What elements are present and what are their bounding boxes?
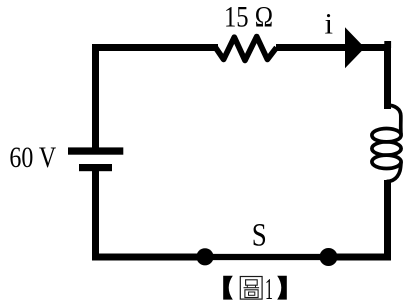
- wire: top segment from resistor to top-right corner: [276, 48, 388, 110]
- caption: right lenticular bracket 】: [277, 276, 287, 300]
- caption: character 圖 top box tick left: [246, 285, 248, 287]
- switch S: right contact dot: [320, 248, 338, 266]
- caption: character 圖 top box tick right: [255, 285, 257, 287]
- battery B1: bottom plate (negative, short): [79, 164, 112, 171]
- inductor L1: loop 2: [372, 142, 401, 155]
- current arrow (direction of i): [345, 27, 365, 68]
- caption: character 圖 bottom box: [245, 290, 258, 298]
- svg-text:1: 1: [265, 271, 273, 305]
- caption: character 圖 top inner box: [246, 280, 258, 285]
- top-right corner nub: [384, 41, 391, 48]
- inductor L1: loop 3: [372, 155, 401, 168]
- inductor L1: bottom hook: [387, 162, 402, 182]
- inductor L1: top hook: [387, 105, 402, 135]
- caption: character 圖 outer box: [240, 277, 262, 300]
- svg-text:S: S: [252, 218, 267, 254]
- caption: left lenticular bracket 【: [223, 276, 233, 300]
- caption: character 圖 bottom inner box: [249, 292, 255, 295]
- svg-text:i: i: [325, 8, 334, 41]
- caption: character 圖 middle bar: [244, 287, 260, 289]
- wire: right lower segment + bottom-right corner + bottom wire to right switch dot: [328, 180, 388, 257]
- wire: switch blade between contacts: [203, 254, 330, 260]
- wire: left upper segment + top-left corner + top wire to resistor: [96, 48, 219, 149]
- inductor L1: loop 1: [372, 129, 401, 142]
- resistor R1: [216, 37, 277, 61]
- wire: bottom-left segment + corner + left lower segment to battery: [96, 171, 207, 258]
- svg-text:15 Ω: 15 Ω: [224, 1, 273, 34]
- svg-text:60 V: 60 V: [9, 141, 56, 174]
- switch S: left contact dot: [196, 248, 213, 265]
- battery B1: top plate (positive, long): [68, 147, 123, 154]
